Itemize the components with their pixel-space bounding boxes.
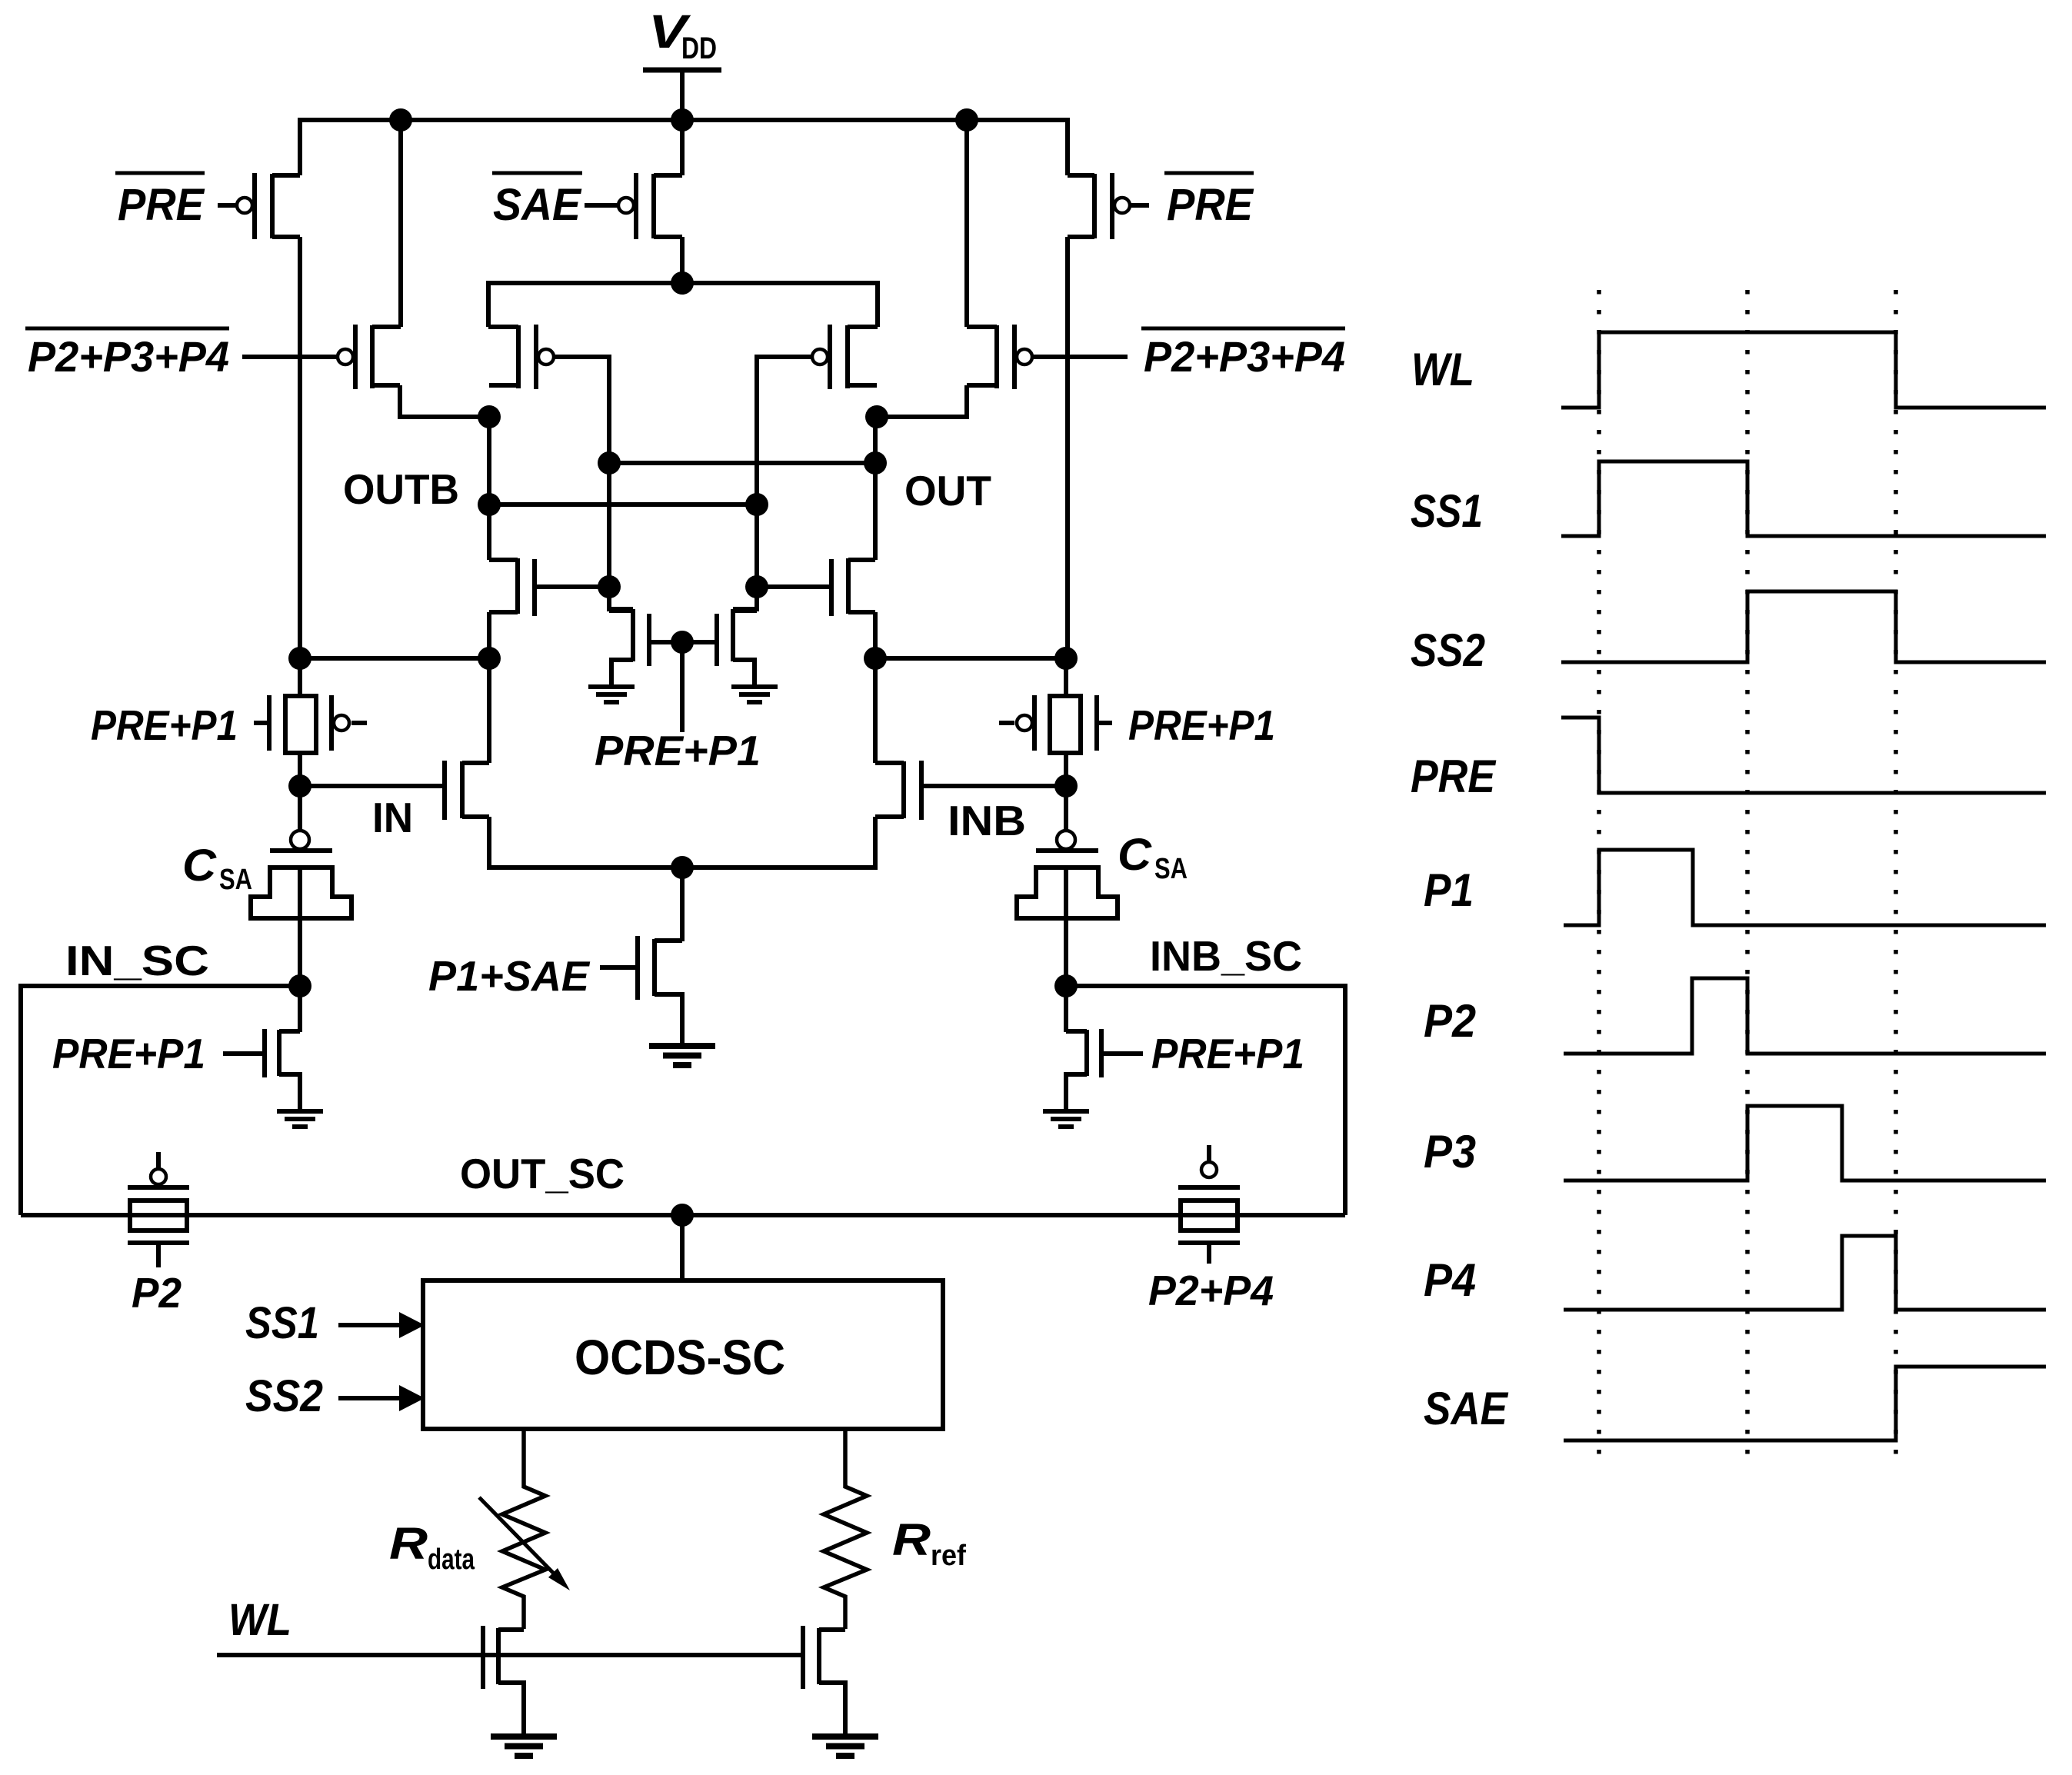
node IN junction: [288, 774, 311, 798]
svg-text:WL: WL: [228, 1595, 291, 1645]
wire OUTB below latch: [487, 612, 491, 763]
transistor PMOS latch left (cross-coupled): [534, 325, 538, 389]
wire SS1 arrow: [338, 1323, 401, 1327]
ground wordline-right: [812, 1737, 878, 1756]
timing waveform SS2: [1561, 591, 2046, 662]
label SAE (overline): [492, 172, 582, 175]
node OUT top junction: [865, 405, 888, 428]
svg-text:P3: P3: [1424, 1126, 1476, 1177]
svg-text:SS2: SS2: [245, 1371, 323, 1421]
timing phase boundary dotted line 1: [1597, 290, 1601, 1469]
node VDD rail junction left: [389, 108, 412, 132]
wire OUTB-to-latch-right-gate: [489, 502, 757, 507]
node SAE drain junction: [671, 271, 694, 295]
ground reset-right NMOS: [1043, 1111, 1089, 1127]
transistor NMOS wordline select right: [801, 1626, 805, 1689]
wire OUT to right column: [875, 656, 1066, 661]
transistor NMOS enable, gate P1+SAE: [635, 936, 640, 1000]
svg-text:PRE: PRE: [1411, 751, 1497, 802]
svg-text:C: C: [182, 841, 217, 891]
node OUTB gate-line junction: [745, 493, 768, 516]
ground equalize-right: [731, 687, 778, 702]
svg-text:SA: SA: [1154, 853, 1188, 885]
node equalize common gate: [671, 631, 694, 654]
svg-text:C: C: [1118, 830, 1152, 880]
wire OUT_SC to OCDS-SC: [680, 1215, 685, 1280]
svg-text:P1: P1: [1424, 864, 1474, 916]
wire rail to isolation-PMOS-left source: [398, 120, 403, 327]
svg-text:PRE+P1: PRE+P1: [52, 1030, 205, 1077]
transistor NMOS equalize right, gate PRE+P1: [715, 614, 719, 666]
wire isolation-PMOS-right drain to OUT: [877, 385, 967, 417]
node OUT vertical junction: [864, 451, 887, 475]
svg-text:R: R: [892, 1515, 931, 1565]
transistor NMOS reset INB_SC, gate PRE+P1: [1064, 986, 1068, 1032]
svg-text:PRE+P1: PRE+P1: [1151, 1030, 1304, 1077]
svg-text:R: R: [389, 1519, 428, 1569]
svg-text:SS2: SS2: [1411, 624, 1485, 676]
svg-text:P2+P4: P2+P4: [1148, 1267, 1274, 1314]
svg-text:P2+P3+P4: P2+P3+P4: [28, 332, 229, 381]
wire OUT vertical: [873, 417, 878, 560]
svg-text:OUT: OUT: [904, 467, 991, 515]
node tail junction: [671, 856, 694, 879]
svg-text:DD: DD: [681, 32, 717, 65]
wire left vertical OUTB-branch (PRE drain down): [298, 237, 302, 658]
wire rail to isolation-PMOS-right source: [964, 120, 969, 327]
transistor NMOS latch left: [532, 559, 537, 616]
timing waveform P1: [1564, 850, 2046, 925]
pmos latch-right gate bubble: [812, 349, 828, 365]
svg-text:SAE: SAE: [493, 180, 582, 230]
wire equalize gate stem: [680, 642, 685, 732]
transistor NMOS equalize left, gate PRE+P1: [647, 614, 651, 666]
node INB junction: [1054, 774, 1078, 798]
wire OUT cross-coupling gate line: [555, 357, 633, 609]
wire inner source rail: [488, 283, 878, 327]
wire OUTB to left column: [300, 656, 489, 661]
svg-text:OUT_SC: OUT_SC: [460, 1150, 625, 1197]
transistor PMOS isolation right, gate P2+P3+P4: [1012, 325, 1017, 389]
svg-text:SS1: SS1: [1411, 485, 1483, 537]
node latch-left gate junction: [598, 575, 621, 598]
svg-text:WL: WL: [1411, 344, 1474, 395]
wire VDD top rail: [300, 120, 1068, 175]
pmos latch-left gate bubble: [538, 349, 554, 365]
timing phase boundary dotted line 3: [1894, 290, 1898, 1469]
resistor Rref: [824, 1429, 867, 1629]
wire OUT_SC bus: [21, 1213, 1345, 1217]
svg-text:INB_SC: INB_SC: [1150, 932, 1302, 980]
svg-text:PRE+P1: PRE+P1: [1128, 701, 1275, 749]
node OUTB top junction: [478, 405, 501, 428]
transistor pass-gate P2 (box symbol): [156, 1152, 161, 1168]
timing waveform P3: [1564, 1106, 2046, 1181]
wire OUTB vertical: [487, 417, 491, 560]
svg-text:SA: SA: [219, 864, 252, 896]
capacitor CSA right: [1064, 786, 1068, 830]
label P2+P3+P4 (overline) left: [25, 327, 229, 331]
transistor PMOS precharge left, gate PRE: [252, 173, 257, 239]
capacitor CSA left: [298, 786, 302, 830]
transistor NMOS input INB: [919, 761, 924, 820]
transistor pass-gate right, gate PRE+P1 (box symbol): [1064, 658, 1068, 696]
node OUTB vertical junction: [478, 493, 501, 516]
node OUT lower junction left: [864, 647, 887, 670]
wire VDD rail to SAE source: [680, 120, 685, 175]
svg-text:SS1: SS1: [245, 1298, 319, 1348]
wire SAE drain to inner rail: [680, 237, 685, 283]
svg-text:OCDS-SC: OCDS-SC: [575, 1330, 785, 1385]
transistor PMOS isolation left, gate P2+P3+P4: [353, 325, 358, 389]
ground reset-left NMOS: [277, 1111, 323, 1127]
label P2+P3+P4 (overline) right: [1141, 327, 1345, 331]
node VDD rail junction right: [955, 108, 978, 132]
ground enable NMOS: [649, 1046, 715, 1065]
svg-text:PRE: PRE: [1167, 180, 1254, 230]
block OCDS-SC: [423, 1280, 943, 1429]
node OUT gate-line junction: [598, 451, 621, 475]
svg-text:P1+SAE: P1+SAE: [428, 952, 591, 1000]
svg-text:P2: P2: [1424, 995, 1476, 1047]
wire right vertical OUT-branch (PRE drain down): [1065, 237, 1070, 658]
svg-text:SAE: SAE: [1424, 1383, 1509, 1434]
timing waveform SS1: [1561, 461, 2046, 536]
timing waveform WL: [1561, 332, 2046, 408]
wire common-source tail: [489, 817, 875, 868]
transistor NMOS reset IN_SC, gate PRE+P1: [298, 986, 302, 1032]
svg-text:P2+P3+P4: P2+P3+P4: [1144, 332, 1345, 381]
transistor pass-gate P2+P4 (box symbol): [1207, 1145, 1211, 1161]
node OUT_SC junction: [671, 1204, 694, 1227]
node latch-right gate junction: [745, 575, 768, 598]
svg-text:data: data: [428, 1544, 475, 1576]
svg-text:P4: P4: [1424, 1254, 1476, 1306]
transistor PMOS precharge right, gate PRE: [1110, 173, 1114, 239]
ground equalize-left: [588, 687, 635, 702]
wire OUTB cross-coupling gate line: [733, 357, 811, 609]
svg-text:PRE+P1: PRE+P1: [91, 701, 238, 749]
svg-text:ref: ref: [931, 1540, 966, 1572]
transistor NMOS latch right: [829, 559, 834, 616]
svg-text:OUTB: OUTB: [343, 465, 459, 513]
node IN_SC junction: [288, 974, 311, 997]
node OUT lower junction right: [1054, 647, 1078, 670]
wire tail to enable NMOS: [680, 868, 685, 941]
node OUTB lower junction left: [288, 647, 311, 670]
label PRE (overline) right: [1164, 172, 1254, 175]
transistor PMOS latch right (cross-coupled): [828, 325, 832, 389]
node INB_SC junction: [1054, 974, 1078, 997]
timing waveform P2: [1564, 978, 2046, 1054]
transistor NMOS wordline select left: [481, 1626, 485, 1689]
timing phase boundary dotted line 2: [1745, 290, 1750, 1469]
node VDD rail junction center: [671, 108, 694, 132]
wire isolation-PMOS-left drain to OUTB: [400, 385, 489, 417]
wire OUT-to-latch-left-gate: [609, 461, 875, 465]
svg-text:IN: IN: [372, 794, 413, 841]
svg-text:P2: P2: [132, 1269, 182, 1317]
wire SS2 arrow: [338, 1396, 401, 1400]
transistor PMOS tail switch, gate SAE: [634, 173, 638, 239]
svg-text:IN_SC: IN_SC: [65, 937, 209, 984]
transistor pass-gate left, gate PRE+P1 (box symbol): [298, 658, 302, 696]
svg-text:INB: INB: [948, 797, 1026, 844]
wire INB_SC to right frame: [1066, 986, 1345, 1215]
node OUTB lower junction right: [478, 647, 501, 670]
label PRE (overline) left: [115, 172, 205, 175]
ground wordline-left: [491, 1737, 557, 1756]
svg-text:PRE: PRE: [118, 180, 205, 230]
resistor Rdata (variable): [502, 1429, 545, 1629]
transistor NMOS input IN: [442, 761, 447, 820]
wire OUT below latch: [873, 612, 878, 763]
svg-text:PRE+P1: PRE+P1: [595, 727, 761, 774]
timing waveform PRE: [1561, 718, 2046, 793]
wire WL wordline: [217, 1653, 803, 1657]
wire IN_SC to left frame: [21, 986, 300, 1215]
timing waveform SAE: [1564, 1367, 2046, 1440]
timing waveform P4: [1564, 1236, 2046, 1310]
